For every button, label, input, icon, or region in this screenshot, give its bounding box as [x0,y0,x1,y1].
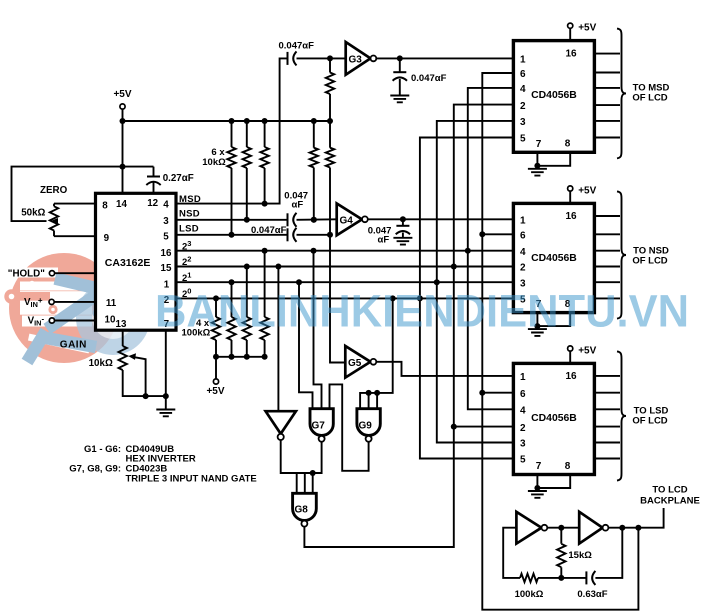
inverter backplane B [579,512,602,544]
brace to NSD of LCD [617,191,626,318]
ground (G3 output cap) [390,96,409,103]
node +5V terminal (bottom) [213,379,218,384]
svg-text:2: 2 [520,423,526,434]
svg-text:8: 8 [102,201,108,212]
capacitor 0.047uF (NSD to G4) [287,213,289,226]
resistor 10k pull-up G5 input [329,121,331,235]
potentiometer 10k GAIN (pin 13) [123,330,166,396]
wire G6/G7 outputs to G8 inputs [281,440,322,493]
wire G4 output to CD4056B #2 pin 1 [368,218,514,220]
svg-text:2: 2 [520,263,526,274]
svg-text:G5: G5 [348,358,362,369]
wire bus 2^3 (pin4 column) [468,88,514,409]
svg-text:16: 16 [161,248,172,259]
capacitor 0.047uF (G3 output to gnd) [399,58,401,95]
NAND gate G9 [357,409,380,436]
node +5V terminal (top left) [120,104,125,109]
ground (CA3162E pin 7) [165,396,167,409]
svg-text:7: 7 [536,461,542,472]
wire DF/backplane bus (pin6 column) [482,73,638,610]
svg-text:10kΩ: 10kΩ [89,358,113,369]
wire 2^0 to G9 inputs [360,298,393,408]
svg-text:16: 16 [565,211,577,222]
svg-text:0.27αF: 0.27αF [163,173,194,184]
svg-text:100kΩ: 100kΩ [515,589,544,600]
wire 100k common to +5V [216,357,265,379]
wire pins 7,8 to ground (CD4056B #2) [537,313,570,327]
capacitor 0.63uF backplane [585,571,587,584]
svg-text:"HOLD": "HOLD" [8,268,45,279]
svg-text:G8: G8 [295,505,309,516]
svg-text:αF: αF [378,235,390,246]
wire feedback loop backplane [503,528,622,578]
resistor 100k pull (2^3) [264,251,266,357]
wire pins 7,8 to ground (CD4056B #1) [537,152,570,166]
svg-text:CA3162E: CA3162E [105,257,151,269]
resistor 100k pull (2^2) [246,267,248,357]
svg-text:6: 6 [520,231,526,242]
svg-text:1: 1 [520,55,526,66]
svg-text:1: 1 [520,372,526,383]
svg-text:G1 - G6:: G1 - G6: [84,444,121,455]
svg-text:13: 13 [116,319,127,330]
ground (CD4056B #1) [536,166,538,169]
svg-text:+5V: +5V [206,386,224,397]
capacitor 0.047uF (MSD to G3) [287,52,289,65]
svg-text:G9: G9 [359,421,373,432]
svg-text:4: 4 [520,406,526,417]
svg-text:OF LCD: OF LCD [632,93,667,104]
svg-text:2: 2 [520,101,526,112]
svg-text:+5V: +5V [578,186,596,197]
svg-text:TO LCD: TO LCD [652,485,687,496]
wire cap to G3 input [297,57,346,59]
svg-text:15: 15 [161,263,172,274]
wire output stubs CD4056B #2 [594,216,620,298]
IC U1 CA3162E body [96,193,177,330]
wire 2^3 to G7 input B [314,251,322,409]
wire pins 7,8 to ground (CD4056B #3) [537,475,570,489]
resistor 10k pull-up LSD [231,121,233,235]
resistor 10k pull-up NSD [246,121,248,220]
svg-text:50kΩ: 50kΩ [21,207,45,218]
node +5V terminal (CD4056B #3 pin16) [569,351,571,363]
resistor 100k pull (2^1) [231,282,233,357]
svg-text:14: 14 [116,199,127,210]
brace to LSD of LCD [617,351,626,480]
brace to MSD of LCD [617,29,626,159]
svg-text:CD4056B: CD4056B [531,90,577,101]
svg-text:G3: G3 [349,55,363,66]
wire G3 output to CD4056B #1 pin 1 [376,57,513,59]
svg-text:0.63αF: 0.63αF [577,589,607,600]
wire output stubs CD4056B #3 [594,376,620,459]
svg-text:+5V: +5V [113,89,131,100]
svg-text:CD4056B: CD4056B [531,253,577,264]
svg-text:6: 6 [520,389,526,400]
svg-text:4: 4 [163,200,169,211]
svg-text:G7, G8, G9:: G7, G8, G9: [69,463,121,474]
wire G9 output to G7 input C [330,384,369,470]
svg-text:8: 8 [565,139,571,150]
svg-text:9: 9 [104,233,110,244]
svg-text:3: 3 [520,439,526,450]
svg-text:4: 4 [520,84,526,95]
inverter backplane A [516,512,541,544]
NAND gate G8 [293,493,317,520]
svg-text:G7: G7 [312,421,326,432]
capacitor 0.047uF (G4 output to gnd) [402,219,404,238]
svg-text:CD4056B: CD4056B [531,413,577,424]
wire LSD cap to G5 input [297,235,346,363]
node dots on 2^2 bus [451,264,457,270]
resistor 100k backplane [520,574,538,582]
svg-text:12: 12 [147,198,158,209]
wire VIN+ to pin 11 [54,301,95,303]
capacitor 0.047uF (LSD to G5) [287,228,289,241]
svg-text:+5V: +5V [578,23,596,34]
svg-text:16: 16 [565,48,577,59]
wire pin 7 CA3162E to ground [165,330,167,396]
svg-text:5: 5 [520,455,526,466]
inverter G6 (pointing down) [266,411,296,434]
svg-text:BACKPLANE: BACKPLANE [640,495,700,506]
svg-text:GAIN: GAIN [60,340,87,351]
svg-text:αF: αF [292,200,304,211]
svg-text:3: 3 [520,117,526,128]
IC CD4056B #1 (MSD driver) [513,41,594,153]
wire CD4056B #2 pin2 stub [454,266,514,268]
svg-text:+5V: +5V [578,346,596,357]
svg-text:LSD: LSD [179,224,199,235]
wire VIN- to pin 10 [55,320,96,322]
resistor 15k [560,528,562,578]
wire +5V rail top-left [123,109,331,193]
svg-text:5: 5 [163,231,169,242]
wire G5 output to CD4056B #3 pin 1 [376,362,513,376]
svg-text:4: 4 [520,247,526,258]
svg-text:0.047αF: 0.047αF [411,73,447,84]
svg-text:BANLINHKIENDIENTU.VN: BANLINHKIENDIENTU.VN [155,286,689,337]
svg-text:10kΩ: 10kΩ [202,157,226,168]
wire backplane output [608,508,663,528]
wire bus 2^1 (pin3 column) [437,121,514,443]
NAND gate G7 [310,409,333,436]
resistor 100k pull (2^0) [215,298,217,356]
svg-text:G4: G4 [340,216,354,227]
wire bus 2^0 (pin5 column) [420,138,514,459]
wire CD4056B #3 pin2 stub [454,426,514,428]
svg-text:16: 16 [565,371,577,382]
svg-text:0.047αF: 0.047αF [279,41,315,52]
svg-text:1: 1 [520,216,526,227]
ground (G4 output cap) [393,238,412,245]
svg-text:OF LCD: OF LCD [632,415,667,426]
IC CD4056B #2 (NSD driver) [513,203,594,312]
resistor 10k pull-up G4 input [313,121,315,220]
node +5V terminal (CD4056B #1 pin16) [569,28,571,40]
svg-text:TRIPLE 3 INPUT NAND GATE: TRIPLE 3 INPUT NAND GATE [126,473,257,484]
resistor 10k pull-up MSD [264,121,266,204]
ground (CD4056B #3) [536,488,538,491]
wire G8 output to 2^2 bus line [304,105,513,547]
node junction pin14 line / zero loop [120,164,126,170]
wire between backplane inverters [547,527,579,529]
svg-text:OF LCD: OF LCD [632,255,667,266]
IC CD4056B #3 (LSD driver) [513,363,594,474]
svg-text:15kΩ: 15kΩ [568,550,592,561]
ground (CD4056B #2) [536,326,538,329]
svg-text:7: 7 [536,139,542,150]
wire cap to G4 input [297,218,337,221]
wire HOLD to IC [55,272,96,274]
wire CD4056B #2 pin6 stub [482,233,513,235]
svg-text:10: 10 [105,315,116,326]
capacitor 0.27uF (pin 12) [153,167,155,194]
svg-text:6: 6 [520,69,526,80]
svg-text:5: 5 [520,134,526,145]
inverter G5 [345,346,370,378]
wire output stubs CD4056B #1 [594,54,620,138]
resistor 10k pull-up G3 input [329,58,331,121]
svg-text:ZERO: ZERO [40,185,68,196]
wire zero feedback loop [12,167,154,222]
potentiometer 50k ZERO [54,204,96,237]
svg-text:NSD: NSD [179,209,200,220]
svg-text:11: 11 [106,298,117,309]
svg-text:3: 3 [163,216,169,227]
wire 2^2 to G6 inverter [277,267,279,412]
node +5V terminal (CD4056B #2 pin16) [569,191,571,203]
watermark logo [4,253,150,363]
inverter G3 [346,42,371,75]
wire CD4056B #3 pin6 stub [482,392,513,394]
svg-text:0.047αF: 0.047αF [251,225,287,236]
wire 2^1 to G7 input A [299,282,313,409]
inverter G4 [337,204,362,236]
svg-text:8: 8 [565,461,571,472]
